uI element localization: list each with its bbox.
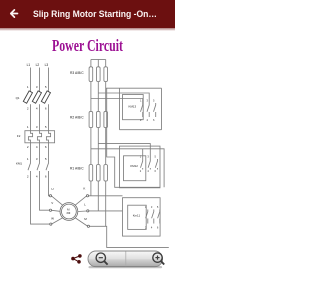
svg-text:L2: L2 [36,63,40,67]
svg-text:R2 A/B/C: R2 A/B/C [70,115,84,119]
svg-text:W: W [51,216,54,220]
svg-text:Power Circuit: Power Circuit [52,36,123,55]
svg-text:F2: F2 [17,134,21,138]
svg-text:U: U [51,187,53,191]
svg-text:L1: L1 [27,63,31,67]
svg-text:R1 A/B/C: R1 A/B/C [70,167,84,171]
svg-text:Q1: Q1 [16,96,20,100]
svg-text:K: K [83,186,85,190]
svg-text:Km11: Km11 [133,214,141,218]
svg-text:V: V [51,201,53,205]
svg-text:R3 A/B/C: R3 A/B/C [70,71,84,75]
svg-text:KM12: KM12 [130,164,138,168]
svg-text:KM1: KM1 [16,162,22,166]
svg-text:KM13: KM13 [129,105,137,109]
svg-text:L3: L3 [45,63,49,67]
svg-text:Slip Ring Motor Starting -On…: Slip Ring Motor Starting -On… [33,9,157,20]
svg-text:3Φ: 3Φ [66,211,71,215]
